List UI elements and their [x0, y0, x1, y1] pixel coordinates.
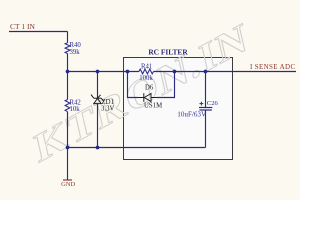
svg-text:CT 1 IN: CT 1 IN	[10, 22, 35, 31]
svg-text:39k: 39k	[70, 49, 81, 56]
svg-text:C26: C26	[207, 100, 219, 107]
svg-text:100k: 100k	[139, 75, 153, 82]
svg-text:R41: R41	[141, 63, 152, 70]
svg-text:GND: GND	[61, 181, 75, 188]
svg-text:RC FILTER: RC FILTER	[148, 47, 188, 56]
svg-text:D6: D6	[145, 85, 154, 92]
svg-text:US1M: US1M	[144, 103, 162, 110]
svg-text:10k: 10k	[70, 106, 81, 113]
svg-text:10uF/63V: 10uF/63V	[177, 112, 206, 119]
svg-text:I SENSE ADC: I SENSE ADC	[250, 63, 295, 71]
svg-text:R40: R40	[70, 42, 82, 49]
svg-text:3.3V: 3.3V	[101, 105, 114, 112]
